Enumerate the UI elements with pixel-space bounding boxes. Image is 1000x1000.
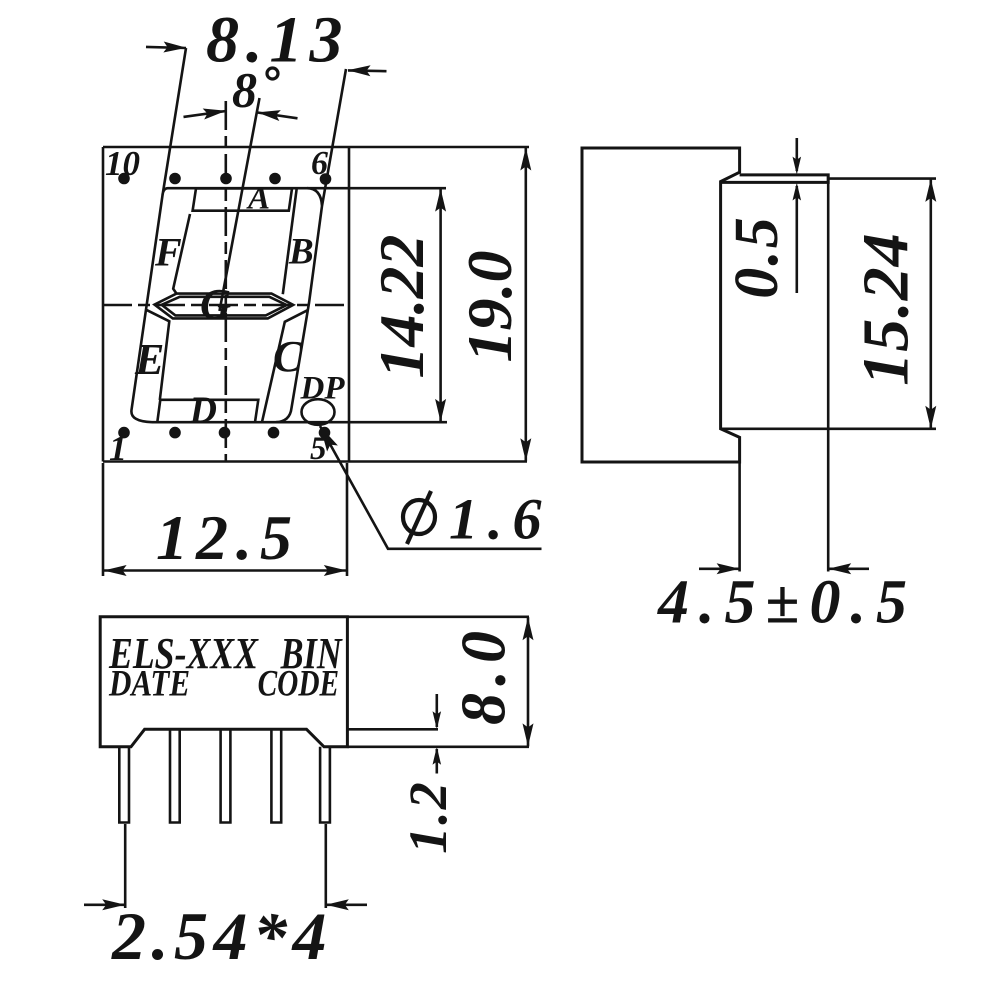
svg-text:8.0: 8.0 bbox=[448, 624, 519, 725]
segment E inner edge bbox=[146, 310, 169, 400]
svg-text:10: 10 bbox=[105, 144, 140, 183]
segment G outer outline bbox=[155, 294, 294, 319]
dimension 8.13 bbox=[146, 42, 387, 77]
dimension 0.5 bbox=[793, 138, 802, 293]
dimension 8 degrees arrows bbox=[184, 105, 298, 121]
svg-text:CODE: CODE bbox=[258, 664, 340, 705]
side view body outline bbox=[582, 148, 740, 462]
vertical centerline bbox=[225, 101, 228, 462]
phi symbol of 1.6 bbox=[403, 491, 435, 544]
pin 1 bbox=[119, 747, 129, 823]
segment F inner edge bbox=[173, 214, 190, 294]
dimension 14.22 line bbox=[435, 189, 446, 422]
decimal point DP bbox=[302, 399, 335, 425]
svg-text:C: C bbox=[273, 332, 303, 381]
svg-text:12.5: 12.5 bbox=[156, 502, 300, 573]
digit outer outline bbox=[131, 48, 346, 422]
segment D bbox=[157, 400, 258, 422]
svg-text:DATE: DATE bbox=[108, 664, 190, 705]
segment B inner edge bbox=[283, 189, 297, 294]
svg-text:2.54*4: 2.54*4 bbox=[111, 898, 332, 974]
svg-text:8: 8 bbox=[232, 62, 257, 118]
segment A bbox=[193, 188, 292, 210]
svg-text:1.6: 1.6 bbox=[449, 487, 552, 552]
svg-text:1.2: 1.2 bbox=[398, 780, 458, 854]
svg-text:5: 5 bbox=[310, 431, 327, 467]
dimension 8.0 bbox=[347, 617, 533, 747]
bottom view package outline bbox=[100, 617, 347, 747]
side view face bottom edge bbox=[721, 427, 829, 430]
dimension 15.24 bbox=[828, 179, 936, 429]
svg-text:F: F bbox=[154, 230, 182, 275]
pin 2 bbox=[170, 729, 180, 822]
digit bottom edge with 14.22 bottom extension bbox=[152, 421, 447, 424]
top pin dots bbox=[118, 173, 331, 185]
pin 4 bbox=[271, 729, 281, 822]
front view outline box bbox=[103, 147, 529, 462]
svg-text:B: B bbox=[288, 232, 314, 273]
svg-text:6: 6 bbox=[311, 145, 328, 182]
bottom pin dots bbox=[118, 427, 330, 439]
dimension 12.5 bbox=[103, 463, 347, 576]
digit slant axis line bbox=[220, 98, 260, 311]
svg-text:0.5: 0.5 bbox=[723, 215, 791, 299]
dimension 1.2 bbox=[347, 694, 441, 774]
svg-text:DP: DP bbox=[300, 371, 346, 407]
svg-text:19.0: 19.0 bbox=[454, 251, 525, 363]
svg-text:A: A bbox=[246, 181, 270, 217]
horizontal centerline bbox=[103, 304, 349, 307]
svg-text:1: 1 bbox=[109, 428, 127, 468]
degree circle of 8 degrees bbox=[267, 68, 278, 79]
svg-text:15.24: 15.24 bbox=[850, 232, 923, 386]
svg-text:E: E bbox=[134, 335, 164, 384]
side view front face edge and lead extension line bbox=[827, 175, 830, 572]
dimension 19.0 line bbox=[520, 148, 531, 462]
dimension 4.5 +/- 0.5 bbox=[699, 563, 869, 574]
dimension 2.54*4 bbox=[84, 824, 367, 910]
svg-text:G: G bbox=[200, 282, 231, 329]
pin 3 bbox=[221, 729, 231, 822]
svg-text:D: D bbox=[189, 390, 217, 432]
digit top edge with 14.22 top extension bbox=[168, 187, 446, 190]
side view front lip bbox=[721, 175, 829, 183]
segment C inner edge bbox=[262, 310, 308, 422]
svg-text:4.5±0.5: 4.5±0.5 bbox=[657, 569, 917, 637]
svg-text:8.13: 8.13 bbox=[206, 4, 350, 77]
side view rear lead extension line bbox=[738, 462, 741, 572]
phi 1.6 leader line bbox=[315, 423, 542, 549]
svg-text:14.22: 14.22 bbox=[366, 235, 437, 379]
pin 5 bbox=[320, 747, 330, 823]
segment G inner outline bbox=[162, 297, 287, 316]
